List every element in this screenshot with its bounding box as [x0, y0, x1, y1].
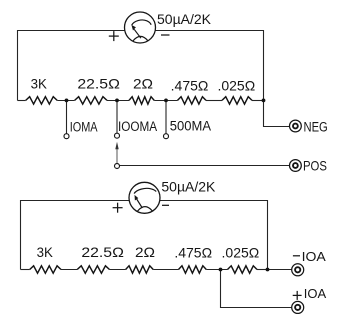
svg-text:3K: 3K	[37, 245, 53, 260]
svg-text:.475Ω: .475Ω	[174, 245, 212, 261]
svg-text:50µA/2K: 50µA/2K	[157, 11, 212, 27]
svg-text:POS: POS	[303, 157, 327, 173]
svg-text:22.5Ω: 22.5Ω	[77, 76, 120, 92]
svg-text:500MA: 500MA	[170, 118, 211, 134]
svg-text:IOA: IOA	[304, 286, 327, 301]
svg-text:2Ω: 2Ω	[135, 246, 155, 261]
svg-text:IOOMA: IOOMA	[118, 118, 157, 134]
svg-text:NEG: NEG	[304, 119, 328, 134]
svg-text:3K: 3K	[31, 76, 47, 91]
svg-text:IOMA: IOMA	[70, 119, 98, 135]
svg-text:IOA: IOA	[302, 249, 326, 263]
svg-text:.025Ω: .025Ω	[222, 245, 260, 261]
svg-text:.025Ω: .025Ω	[217, 78, 255, 94]
svg-text:22.5Ω: 22.5Ω	[81, 245, 124, 261]
svg-text:50µA/2K: 50µA/2K	[161, 179, 216, 195]
svg-text:.475Ω: .475Ω	[171, 78, 209, 94]
svg-text:2Ω: 2Ω	[133, 77, 153, 92]
